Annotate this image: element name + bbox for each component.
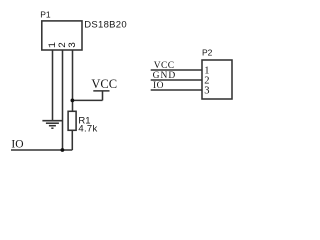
- svg-text:IO: IO: [11, 138, 23, 150]
- svg-text:IO: IO: [153, 81, 164, 91]
- svg-text:VCC: VCC: [154, 61, 175, 71]
- svg-text:3: 3: [204, 85, 209, 96]
- svg-text:P2: P2: [202, 47, 213, 57]
- svg-text:P1: P1: [40, 10, 51, 20]
- svg-text:3: 3: [68, 42, 79, 48]
- svg-text:DS18B20: DS18B20: [84, 19, 127, 30]
- svg-text:4.7k: 4.7k: [78, 124, 97, 135]
- svg-text:VCC: VCC: [91, 77, 117, 91]
- svg-text:GND: GND: [153, 71, 177, 81]
